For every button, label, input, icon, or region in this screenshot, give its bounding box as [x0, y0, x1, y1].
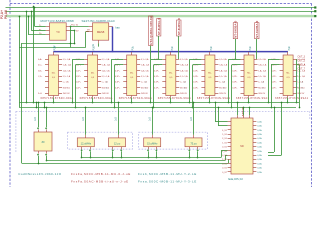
pin labels: [271, 59, 303, 89]
svg-text:FnsFa,S0AC-M5B-ti-aU-n-J-uE: FnsFa,S0AC-M5B-ti-aU-n-J-uE: [71, 180, 129, 184]
pin: [147, 147, 149, 159]
svg-text:0,1P+: 0,1P+: [271, 82, 277, 84]
svg-text:1,A+ 5,A: 1,A+ 5,A: [219, 69, 227, 72]
wire: [268, 102, 282, 156]
svg-text:12,uMHz: 12,uMHz: [81, 142, 92, 146]
svg-text:M,0 M,0: M,0 M,0: [63, 87, 71, 89]
svg-text:L+ 1,A: L+ 1,A: [297, 81, 303, 84]
svg-text:5,1+ 1,A: 5,1+ 1,A: [219, 75, 227, 78]
svg-text:MCP7133-8A830-08N8: MCP7133-8A830-08N8: [41, 19, 75, 23]
wire: [19, 32, 89, 48]
svg-text:5,1+ 1,A: 5,1+ 1,A: [258, 75, 266, 78]
pin: [112, 147, 114, 159]
pin: [197, 147, 199, 159]
pin labels: [258, 58, 267, 95]
wire: [6, 6, 317, 8]
IC U7: [201, 52, 218, 96]
svg-text:1,A+ 5,A: 1,A+ 5,A: [63, 69, 71, 72]
pin labels: [154, 59, 186, 89]
wire: [111, 59, 124, 103]
svg-text:0,1+ 0,A: 0,1+ 0,A: [180, 58, 188, 61]
svg-text:5,1+ 1,A: 5,1+ 1,A: [102, 75, 110, 78]
svg-text:0,1P+: 0,1P+: [193, 65, 199, 67]
svg-text:0,1P+: 0,1P+: [193, 76, 199, 78]
pin: [131, 96, 133, 104]
pin: [92, 96, 94, 104]
svg-text:FnsFa,S00C-M5B-11-MU-0-J-uE: FnsFa,S00C-M5B-11-MU-0-J-uE: [71, 172, 131, 176]
svg-text:fada,CPU,10: fada,CPU,10: [228, 177, 243, 181]
IC U3: [45, 52, 62, 96]
svg-text:UT2-QH08A-N30-8H: UT2-QH08A-N30-8H: [149, 16, 153, 45]
svg-text:0,1P+: 0,1P+: [76, 82, 82, 84]
net label (vertical): [149, 16, 153, 59]
oscillator 12,uMHz: [77, 138, 94, 147]
wire: [26, 11, 28, 104]
svg-text:1c0: 1c0: [34, 117, 37, 121]
svg-text:L+ 1,A: L+ 1,A: [258, 81, 264, 84]
svg-text:0,1A: 0,1A: [257, 162, 262, 165]
svg-text:CodONnsLLFV-J0b0-1JO: CodONnsLLFV-J0b0-1JO: [18, 172, 61, 176]
svg-text:P,0c: P,0c: [288, 45, 291, 50]
svg-text:5,1+ 1,A: 5,1+ 1,A: [297, 75, 305, 78]
svg-text:0,1A: 0,1A: [257, 133, 262, 136]
svg-text:0,1P+: 0,1P+: [232, 70, 238, 72]
net labels OUT: [298, 55, 306, 70]
oscillator 15,uMHz: [144, 138, 161, 147]
svg-text:C,A+ 1,A: C,A+ 1,A: [219, 64, 228, 67]
svg-text:0,1P+: 0,1P+: [232, 82, 238, 84]
svg-text:0,1P+: 0,1P+: [115, 76, 121, 78]
svg-text:6857155-8Y84N-99A1: 6857155-8Y84N-99A1: [41, 96, 75, 100]
pin: [85, 107, 87, 138]
wire: [192, 65, 202, 109]
svg-text:0,1A: 0,1A: [257, 150, 262, 153]
svg-text:5,1+ 1,A: 5,1+ 1,A: [63, 75, 71, 78]
selection rect: [139, 132, 208, 149]
pin: [28, 16, 50, 35]
pin: [209, 96, 211, 104]
svg-text:5_S1: 5_S1: [222, 159, 228, 161]
node PA bus labels: [0, 10, 8, 19]
net labels: [38, 58, 43, 95]
svg-text:1c0: 1c0: [149, 117, 152, 121]
svg-text:OUT_7: OUT_7: [298, 68, 306, 71]
svg-text:x: x: [106, 82, 108, 84]
svg-text:OUT_3: OUT_3: [298, 55, 306, 58]
svg-text:kaa: kaa: [116, 25, 121, 29]
svg-text:0,1+ 0,A: 0,1+ 0,A: [63, 58, 71, 61]
net label (vertical): [177, 18, 181, 59]
svg-text:2HV 0V: 2HV 0V: [219, 93, 227, 95]
svg-text:0,1P+: 0,1P+: [76, 87, 82, 89]
svg-text:6857155-8Y84N-99A1: 6857155-8Y84N-99A1: [236, 96, 270, 100]
svg-text:Fnsa,S00C-M0B-11-MU-Y-3-LE: Fnsa,S00C-M0B-11-MU-Y-3-LE: [138, 180, 197, 184]
svg-text:L+ 1,A: L+ 1,A: [102, 81, 108, 84]
pin: [37, 102, 39, 132]
svg-text:0,1P+: 0,1P+: [154, 65, 160, 67]
wire: [153, 65, 163, 109]
wire: [243, 107, 245, 116]
pin: [155, 147, 157, 159]
svg-text:6857155-8Y84N-99A1: 6857155-8Y84N-99A1: [197, 96, 231, 100]
svg-text:Fnsb,S00C-M5B-11-MU-Y-2-LE: Fnsb,S00C-M5B-11-MU-Y-2-LE: [138, 172, 197, 176]
svg-text:0_S1: 0_S1: [222, 168, 228, 170]
svg-text:5c: 5c: [92, 43, 95, 46]
pin labels: [102, 58, 111, 95]
svg-text:0,C+: 0,C+: [38, 65, 43, 67]
wire CLK: [53, 51, 288, 53]
IC U6: [162, 52, 179, 96]
svg-text:0,1P+: 0,1P+: [154, 70, 160, 72]
svg-text:0,1P+: 0,1P+: [76, 70, 82, 72]
svg-text:0,A+: 0,A+: [38, 58, 43, 61]
wire: [6, 15, 317, 17]
wire: [114, 65, 124, 109]
svg-text:15,uMHz: 15,uMHz: [147, 142, 158, 146]
svg-text:1,A+ 5,A: 1,A+ 5,A: [180, 69, 188, 72]
pin: [66, 31, 79, 33]
wire: [189, 59, 202, 103]
svg-text:0,1P+: 0,1P+: [193, 87, 199, 89]
svg-text:0,1+ 0,A: 0,1+ 0,A: [141, 58, 149, 61]
svg-text:x: x: [145, 82, 147, 84]
svg-text:NT-8H05A-0: NT-8H05A-0: [157, 18, 161, 36]
oscillator 12,cu: [109, 138, 126, 147]
IC U8: [241, 52, 258, 96]
wire: [19, 16, 21, 108]
CPU right pin labels: [257, 120, 262, 173]
svg-text:3H: 3H: [87, 30, 90, 32]
wire: [70, 26, 72, 48]
svg-text:x: x: [296, 73, 298, 75]
svg-text:0,1P+: 0,1P+: [232, 65, 238, 67]
pin: [31, 11, 50, 31]
net label (vertical): [233, 20, 237, 59]
svg-text:0,1P+: 0,1P+: [232, 87, 238, 89]
svg-text:2HV 0V: 2HV 0V: [258, 93, 266, 95]
svg-text:0,1A: 0,1A: [257, 167, 262, 170]
pin: [170, 96, 172, 104]
pin labels: [232, 59, 264, 89]
pin labels: [193, 59, 225, 89]
sheet border: [10, 0, 312, 187]
selection rect: [68, 132, 133, 149]
svg-text:C,A+ 1,A: C,A+ 1,A: [258, 64, 267, 67]
svg-text:NT-8H05A-0: NT-8H05A-0: [234, 20, 238, 38]
wire CLK: [109, 25, 120, 52]
svg-text:SE37JN1-6AR88-3AA0: SE37JN1-6AR88-3AA0: [82, 19, 115, 23]
svg-text:12,cu: 12,cu: [114, 142, 121, 146]
svg-text:P,0c: P,0c: [132, 45, 135, 50]
svg-text:0,1P+: 0,1P+: [271, 76, 277, 78]
svg-text:0,1P+: 0,1P+: [76, 65, 82, 67]
svg-text:5,1+ 1,A: 5,1+ 1,A: [180, 75, 188, 78]
wire: [6, 10, 317, 12]
svg-text:2HV 0V: 2HV 0V: [63, 93, 71, 95]
pin: [89, 147, 91, 159]
svg-text:0,1A: 0,1A: [257, 125, 262, 128]
selection rect: [16, 111, 310, 152]
pin labels: [63, 58, 72, 95]
svg-text:6_S1: 6_S1: [222, 130, 228, 132]
pin labels: [180, 58, 189, 95]
wire: [271, 65, 280, 109]
svg-text:0,1P+: 0,1P+: [115, 65, 121, 67]
svg-text:0,1P+: 0,1P+: [271, 65, 277, 67]
svg-text:NT-8H05A-0: NT-8H05A-0: [255, 20, 259, 38]
wire: [268, 107, 275, 153]
pin: [152, 107, 154, 138]
svg-text:0,1A: 0,1A: [257, 158, 262, 161]
svg-text:0,1A: 0,1A: [257, 146, 262, 149]
wire: [268, 59, 280, 103]
svg-text:0,1P+: 0,1P+: [115, 70, 121, 72]
svg-text:1,A+ 5,A: 1,A+ 5,A: [258, 69, 266, 72]
svg-text:2HV 0V: 2HV 0V: [297, 93, 305, 95]
svg-text:P1aʼ 3n: P1aʼ 3n: [71, 23, 79, 26]
svg-text:6857155-8Y84N-99A1: 6857155-8Y84N-99A1: [275, 96, 309, 100]
IC U5: [123, 52, 140, 96]
svg-text:MES8: MES8: [97, 30, 105, 34]
svg-text:1,A+ 5,A: 1,A+ 5,A: [102, 69, 110, 72]
svg-text:0,1+ 0,A: 0,1+ 0,A: [219, 58, 227, 61]
pin: [81, 147, 83, 159]
pin labels: [141, 58, 150, 95]
svg-text:0_S1: 0_S1: [222, 147, 228, 149]
svg-text:OUT_2: OUT_2: [298, 60, 306, 63]
pin: [287, 96, 289, 104]
wire: [218, 107, 228, 126]
IC CPU U10: [228, 115, 257, 174]
svg-text:0,1A: 0,1A: [257, 137, 262, 140]
pin labels: [76, 59, 108, 89]
wire: [19, 107, 296, 109]
wire: [215, 102, 228, 122]
IC U1: [50, 23, 67, 40]
svg-text:L+ 1,A: L+ 1,A: [141, 81, 147, 84]
svg-text:2HV 0V: 2HV 0V: [180, 93, 188, 95]
svg-text:0,1+ 0,A: 0,1+ 0,A: [102, 58, 110, 61]
svg-text:0,1A: 0,1A: [257, 141, 262, 144]
net labels x: [296, 73, 298, 90]
wire: [22, 30, 76, 45]
pin: [53, 96, 55, 104]
svg-text:0,1P+: 0,1P+: [154, 87, 160, 89]
svg-text:0,1+ 0,A: 0,1+ 0,A: [258, 58, 266, 61]
svg-text:0,1P+: 0,1P+: [271, 70, 277, 72]
svg-text:1c0: 1c0: [115, 117, 118, 121]
wire: [75, 65, 84, 109]
pin labels: [219, 58, 228, 95]
svg-text:6857155-8Y84N-99A1: 6857155-8Y84N-99A1: [80, 96, 114, 100]
pin: [86, 30, 93, 32]
wire: [72, 59, 84, 103]
pin: [118, 102, 120, 138]
svg-text:L+ 1,A: L+ 1,A: [63, 81, 69, 84]
svg-text:1c0: 1c0: [190, 117, 193, 121]
svg-text:6857155-8Y84N-99A1: 6857155-8Y84N-99A1: [158, 96, 192, 100]
wire: [249, 107, 251, 116]
svg-text:6857155-8Y84N-99A1: 6857155-8Y84N-99A1: [119, 96, 153, 100]
svg-text:3+H: 3+H: [38, 93, 42, 95]
pin: [188, 147, 190, 159]
svg-text:C,A+ 1,A: C,A+ 1,A: [180, 64, 189, 67]
svg-text:0,1P+: 0,1P+: [154, 82, 160, 84]
svg-text:1_S1: 1_S1: [222, 151, 228, 153]
component X0: [34, 132, 52, 151]
svg-text:0,1P+: 0,1P+: [76, 76, 82, 78]
svg-text:5,B+: 5,B+: [38, 70, 43, 72]
svg-text:2HV 0V: 2HV 0V: [102, 93, 110, 95]
wire: [296, 59, 298, 103]
wire: [297, 65, 301, 109]
svg-text:0,1P+: 0,1P+: [115, 82, 121, 84]
svg-text:1,A+ 5,A: 1,A+ 5,A: [141, 69, 149, 72]
svg-text:5,1+ 1,A: 5,1+ 1,A: [141, 75, 149, 78]
svg-text:1_S1: 1_S1: [222, 142, 228, 144]
wire: [44, 102, 46, 109]
wire: [150, 59, 163, 103]
svg-text:0,1A: 0,1A: [257, 171, 262, 174]
pin: [193, 102, 195, 138]
pin: [92, 40, 99, 46]
svg-text:0,1P+: 0,1P+: [154, 76, 160, 78]
svg-text:P,0c: P,0c: [210, 45, 213, 50]
pin: [120, 147, 122, 159]
svg-text:x: x: [302, 82, 304, 84]
svg-text:0,1A: 0,1A: [257, 120, 262, 123]
svg-text:0,1A: 0,1A: [257, 129, 262, 132]
IC U2: [93, 23, 109, 40]
svg-text:C,5+: C,5+: [38, 76, 43, 78]
svg-text:P,0c: P,0c: [249, 45, 252, 50]
svg-text:P,0c: P,0c: [171, 45, 174, 50]
svg-text:0_S7: 0_S7: [222, 172, 228, 174]
wire: [33, 6, 35, 104]
svg-text:5_S1: 5_S1: [222, 134, 228, 136]
svg-text:NT-8H05A-0: NT-8H05A-0: [177, 18, 181, 36]
wire: [46, 155, 228, 160]
svg-text:C,A+ 1,A: C,A+ 1,A: [102, 64, 111, 67]
svg-text:3V: 3V: [76, 31, 79, 33]
pin labels: [297, 58, 306, 95]
wire: [237, 102, 239, 116]
wire: [82, 151, 228, 158]
pin: [45, 107, 47, 132]
IC U4: [84, 52, 101, 96]
svg-text:2HV 0V: 2HV 0V: [141, 93, 149, 95]
svg-text:x: x: [223, 82, 225, 84]
svg-text:x: x: [184, 82, 186, 84]
pin labels: [115, 59, 147, 89]
pin: [89, 26, 93, 28]
net label (vertical): [255, 20, 259, 59]
svg-text:C,A+ 1,A: C,A+ 1,A: [63, 64, 72, 67]
svg-text:0,1P+: 0,1P+: [193, 82, 199, 84]
svg-text:0,1P+: 0,1P+: [115, 87, 121, 89]
svg-text:Y0: Y0: [56, 30, 60, 34]
svg-text:P0,A8: P0,A8: [4, 10, 8, 19]
CPU left pin labels: [222, 130, 228, 174]
svg-text:0,1P+: 0,1P+: [232, 76, 238, 78]
wire: [36, 102, 38, 109]
pin: [66, 23, 89, 26]
svg-text:C,A+ 1,A: C,A+ 1,A: [141, 64, 150, 67]
svg-text:1c0: 1c0: [82, 117, 85, 121]
svg-text:75,cu: 75,cu: [190, 142, 197, 146]
wire: [19, 102, 299, 104]
wire: [228, 59, 241, 103]
net label (vertical): [157, 18, 161, 59]
svg-text:3_S1: 3_S1: [222, 138, 228, 140]
IC U9: [280, 52, 297, 96]
pin: [248, 96, 250, 104]
svg-text:0,1P+: 0,1P+: [193, 70, 199, 72]
svg-text:L+ 1,A: L+ 1,A: [219, 81, 225, 84]
pin: [34, 7, 50, 27]
wire: [231, 65, 241, 109]
svg-text:OUT_A: OUT_A: [298, 64, 306, 67]
svg-text:0,1A: 0,1A: [257, 154, 262, 157]
wire: [22, 43, 229, 164]
pin: [37, 151, 39, 164]
svg-text:0,1P+: 0,1P+: [271, 87, 277, 89]
svg-text:L+ 1,A: L+ 1,A: [180, 81, 186, 84]
pin: [45, 151, 47, 161]
oscillator 75,cu: [185, 138, 202, 147]
